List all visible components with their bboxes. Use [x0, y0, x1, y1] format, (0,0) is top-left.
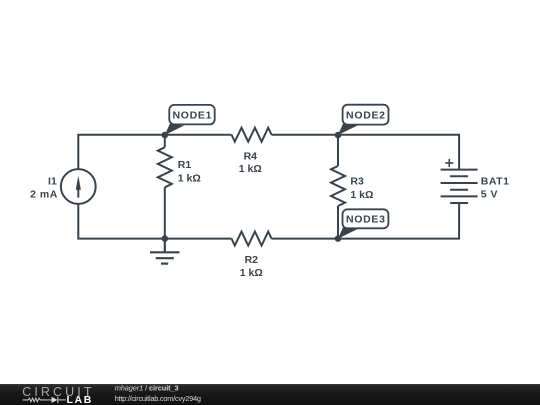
- svg-text:NODE1: NODE1: [172, 110, 212, 122]
- node NODE2 callout: [338, 105, 389, 135]
- wire top-right corner rail (R4 to battery): [272, 135, 460, 170]
- svg-text:R2: R2: [245, 254, 259, 266]
- node dot NODE1: [162, 132, 169, 139]
- svg-text:R1: R1: [178, 159, 192, 171]
- svg-text:BAT1: BAT1: [481, 175, 510, 187]
- resistor R2: [232, 232, 272, 246]
- svg-text:1 kΩ: 1 kΩ: [178, 172, 201, 184]
- svg-text:R4: R4: [244, 150, 258, 162]
- wire R1 bottom lead: [164, 187, 166, 238]
- resistor R3: [331, 166, 345, 206]
- svg-text:NODE2: NODE2: [346, 110, 386, 122]
- wire bottom-right corner rail (R2 to battery): [272, 203, 460, 239]
- battery BAT1 plates: [441, 170, 478, 203]
- wire bottom-left corner rail (I1 to R2): [78, 204, 231, 239]
- current source I1 arrow: [76, 176, 81, 198]
- svg-text:mhager1 / circuit_3: mhager1 / circuit_3: [115, 384, 179, 393]
- footer credit text: [115, 384, 201, 403]
- label R1 value: [178, 159, 201, 185]
- node dot NODE3: [335, 235, 342, 242]
- svg-text:5 V: 5 V: [481, 189, 498, 201]
- node NODE3 callout: [338, 209, 388, 238]
- wire top-left corner rail (I1 to R4): [78, 135, 231, 169]
- label R4 value: [239, 150, 262, 175]
- svg-text:1 kΩ: 1 kΩ: [350, 189, 373, 201]
- battery plus sign: [445, 159, 453, 167]
- wire R1 top lead: [164, 135, 166, 147]
- footer bar: [0, 384, 540, 405]
- node dot NODE2: [335, 132, 342, 139]
- node dot ground junction: [162, 235, 169, 242]
- label R3 value: [350, 176, 373, 201]
- svg-text:2 mA: 2 mA: [30, 189, 58, 201]
- CircuitLab logo resistor-diode mark: [23, 397, 66, 403]
- svg-text:LAB: LAB: [67, 394, 93, 405]
- node NODE1 callout: [165, 105, 215, 135]
- svg-text:NODE3: NODE3: [346, 214, 386, 226]
- svg-text:R3: R3: [350, 176, 364, 188]
- wire R3 top lead: [337, 135, 339, 166]
- label R2 value: [240, 254, 263, 279]
- svg-text:1 kΩ: 1 kΩ: [239, 163, 262, 175]
- label I1 value: [30, 175, 58, 200]
- resistor R1: [158, 147, 172, 187]
- label BAT1 value: [481, 175, 510, 200]
- wire R3 bottom lead: [337, 206, 339, 239]
- resistor R4: [232, 128, 272, 142]
- ground: [150, 239, 180, 264]
- CircuitLab logo wordmark: [22, 385, 94, 405]
- svg-text:http://circuitlab.com/cvy294g: http://circuitlab.com/cvy294g: [115, 394, 201, 403]
- current source I1 circle: [61, 169, 96, 204]
- svg-text:I1: I1: [48, 175, 57, 187]
- svg-text:1 kΩ: 1 kΩ: [240, 267, 263, 279]
